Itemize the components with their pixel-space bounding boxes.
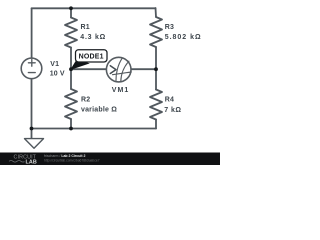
svg-text:4.3 kΩ: 4.3 kΩ [80, 34, 106, 41]
wire middle branch bottom lead [70, 119, 72, 129]
svg-text:10 V: 10 V [50, 70, 65, 77]
wire voltmeter right [131, 68, 156, 70]
wire bottom horizontal [32, 128, 157, 130]
junction node right [154, 67, 158, 71]
svg-text:variable Ω: variable Ω [81, 107, 117, 114]
svg-text:LAB: LAB [26, 159, 37, 165]
junction node NODE1 [69, 67, 73, 71]
NODE1 callout pointer [71, 60, 89, 70]
svg-text:R1: R1 [81, 24, 90, 31]
NODE1 callout box [76, 50, 108, 62]
junction node ground [30, 127, 34, 131]
wire left branch lower [31, 79, 33, 139]
wire middle branch top lead [70, 8, 72, 17]
voltmeter VM1 arrow chevron [110, 66, 116, 74]
wire voltmeter left [71, 68, 106, 70]
wire middle branch between R1 and R2 [70, 48, 72, 90]
svg-text:R4: R4 [165, 97, 174, 104]
resistor R3 zigzag [150, 17, 162, 47]
wire left branch upper [31, 8, 33, 58]
ground symbol [25, 139, 44, 149]
V1 minus sign [28, 72, 35, 74]
svg-text:R2: R2 [81, 97, 90, 104]
wire top horizontal [32, 7, 156, 9]
voltmeter VM1 circle [106, 57, 131, 82]
voltmeter VM1 needle arcs [113, 58, 132, 81]
svg-text:NODE1: NODE1 [79, 54, 104, 61]
resistor R2 zigzag (variable) [65, 89, 77, 119]
svg-text:VM1: VM1 [112, 87, 130, 94]
watermark CircuitLab logo CIRCUIT [14, 155, 37, 161]
wire right branch between R3 and R4 [155, 47, 157, 90]
svg-text:7 kΩ: 7 kΩ [164, 107, 181, 114]
svg-text:http://circuitlab.com/c/ba678b: http://circuitlab.com/c/ba678b3uabce7 [44, 158, 100, 162]
V1 plus sign [28, 59, 35, 66]
svg-text:R3: R3 [165, 24, 174, 31]
watermark bar background [0, 153, 220, 166]
wire right branch top lead [155, 8, 158, 17]
voltmeter VM1 crossing line [113, 72, 132, 75]
voltage source V1 circle [21, 58, 42, 79]
resistor R4 zigzag [150, 90, 162, 120]
svg-text:V1: V1 [50, 61, 59, 68]
watermark CircuitLab logo squiggle [9, 161, 25, 163]
resistor R1 zigzag [65, 18, 77, 48]
svg-text:5.802 kΩ: 5.802 kΩ [165, 34, 202, 41]
junction node top [69, 6, 73, 10]
junction node bottom middle [69, 127, 73, 131]
wire right branch bottom lead [155, 120, 157, 129]
watermark title line [44, 154, 100, 162]
